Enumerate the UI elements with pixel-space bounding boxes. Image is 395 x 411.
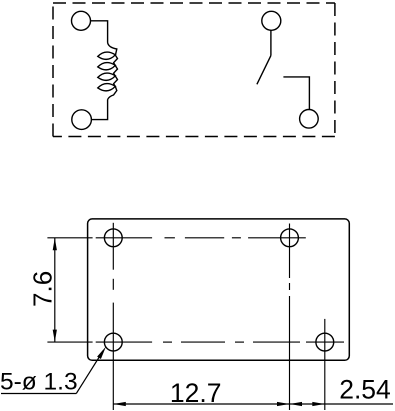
footprint outline rounded rectangle xyxy=(88,219,350,360)
center line vertical through H1/H3 xyxy=(112,223,114,410)
svg-text:5-ø 1.3: 5-ø 1.3 xyxy=(0,368,78,395)
svg-text:2.54: 2.54 xyxy=(339,375,391,405)
svg-text:12.7: 12.7 xyxy=(170,378,222,408)
dimension 2.54 arrow right xyxy=(312,402,325,406)
leader arrowhead at hole H3 xyxy=(97,347,106,360)
wire pin1 to coil xyxy=(91,21,108,43)
svg-text:7.6: 7.6 xyxy=(28,271,58,307)
switch blade (open contact) xyxy=(257,56,271,85)
leader 5-diameter-1.3 underline xyxy=(1,393,76,395)
contact terminal pin 4 xyxy=(300,110,319,129)
center line horizontal bottom row xyxy=(47,341,344,343)
coil L1 loop 4 xyxy=(98,84,116,91)
coil L1 loop 2 xyxy=(98,63,116,70)
dimension 7.6 arrow up xyxy=(53,238,57,251)
hole H3 bottom-left xyxy=(104,333,122,351)
dimension 2.54 arrow left xyxy=(290,402,303,406)
coil terminal pin 1 xyxy=(72,11,91,30)
dimension 12.7 arrow left xyxy=(113,402,126,406)
coil terminal pin 2 xyxy=(72,110,92,130)
switch common terminal pin 3 xyxy=(262,11,281,30)
coil right connector zigzag xyxy=(108,43,118,100)
center line vertical through H2 xyxy=(289,224,291,411)
coil L1 loop 1 xyxy=(98,52,116,59)
relay enclosure dashed outline xyxy=(53,3,335,137)
wire coil to pin 2 xyxy=(91,100,107,120)
center line vertical through H4 xyxy=(324,319,326,410)
dimension 12.7 line xyxy=(113,403,289,405)
hole H1 top-left xyxy=(104,229,122,247)
leader diagonal xyxy=(76,351,103,394)
wire pin3 down xyxy=(270,30,272,55)
dimension 2.54 line with tail xyxy=(290,403,394,405)
dimension 7.6 arrow down xyxy=(53,330,57,343)
coil L1 loop 3 xyxy=(98,73,116,80)
hole H4 bottom-right xyxy=(316,333,334,351)
hole H2 top-right xyxy=(281,229,299,247)
dimension 7.6 line with arrows xyxy=(54,238,56,342)
dimension 12.7 arrow right xyxy=(277,402,290,406)
fixed contact wire xyxy=(283,77,309,109)
center line horizontal top row xyxy=(47,237,305,239)
